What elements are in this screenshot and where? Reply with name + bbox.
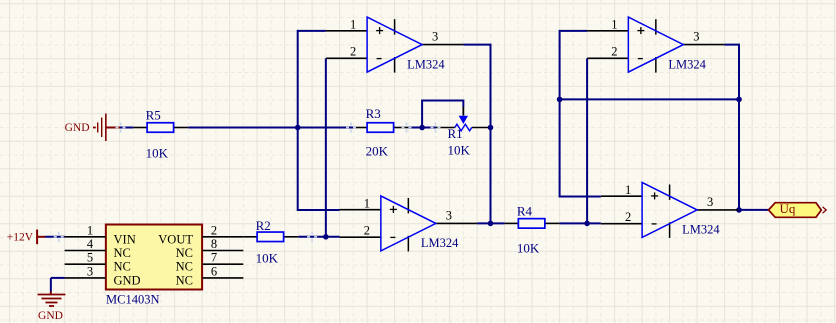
svg-text:NC: NC [114,246,131,260]
svg-text:2: 2 [611,45,617,59]
svg-text:5: 5 [87,251,93,265]
svg-text:1: 1 [611,18,617,32]
svg-text:7: 7 [211,251,217,265]
svg-text:GND: GND [65,122,90,134]
svg-text:10K: 10K [146,145,169,160]
svg-text:3: 3 [432,30,438,44]
svg-text:2: 2 [364,223,370,237]
svg-text:1: 1 [350,18,356,32]
svg-text:Uq: Uq [780,201,796,216]
svg-text:VIN: VIN [114,232,136,246]
svg-text:LM324: LM324 [682,223,720,237]
svg-text:3: 3 [87,264,93,278]
svg-text:3: 3 [446,208,452,222]
svg-text:2: 2 [350,45,356,59]
svg-text:R1: R1 [448,126,463,141]
svg-text:6: 6 [211,264,217,278]
svg-text:GND: GND [38,310,63,322]
svg-text:10K: 10K [256,250,279,265]
svg-text:10K: 10K [517,240,540,255]
svg-text:+12V: +12V [7,232,34,244]
svg-text:GND: GND [114,273,141,287]
svg-text:2: 2 [625,210,631,224]
svg-text:20K: 20K [366,144,389,159]
svg-text:LM324: LM324 [421,236,459,250]
svg-text:1: 1 [87,223,93,237]
svg-text:1: 1 [625,183,631,197]
svg-text:VOUT: VOUT [158,232,193,246]
svg-text:R3: R3 [366,106,381,121]
svg-text:2: 2 [211,223,217,237]
svg-text:LM324: LM324 [668,57,706,71]
svg-text:4: 4 [87,237,94,251]
svg-text:NC: NC [176,246,193,260]
svg-text:NC: NC [176,273,193,287]
svg-text:LM324: LM324 [407,57,445,71]
svg-text:8: 8 [211,237,217,251]
svg-text:10K: 10K [448,143,471,158]
svg-text:3: 3 [693,30,699,44]
svg-text:3: 3 [707,195,713,209]
svg-text:R5: R5 [146,108,161,123]
svg-text:NC: NC [114,260,131,274]
svg-text:R2: R2 [256,218,271,233]
svg-text:MC1403N: MC1403N [106,293,159,307]
svg-text:1: 1 [364,196,370,210]
svg-text:NC: NC [176,260,193,274]
svg-text:R4: R4 [517,203,533,218]
